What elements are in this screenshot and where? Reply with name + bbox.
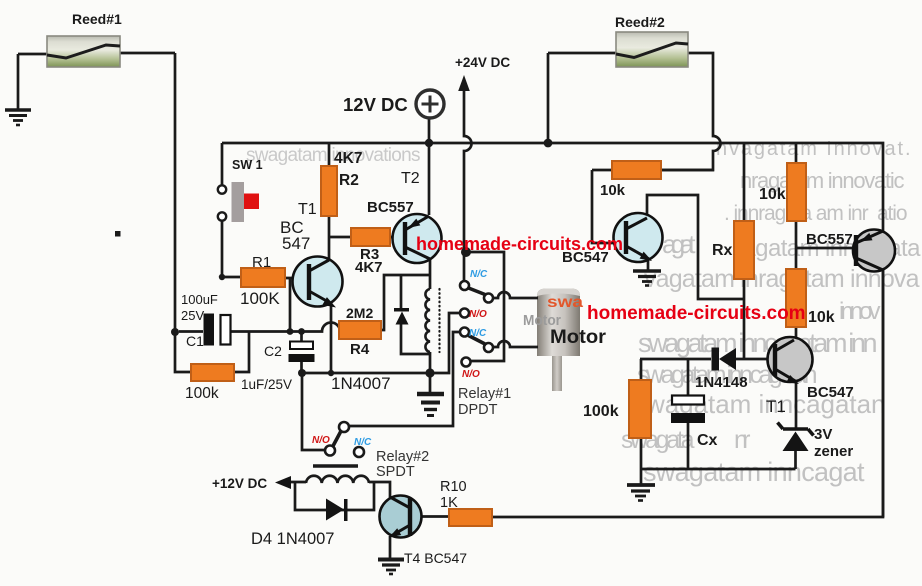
svg-text:zener: zener	[814, 443, 853, 460]
svg-text:DPDT: DPDT	[458, 402, 498, 418]
svg-text:3V: 3V	[814, 426, 832, 443]
svg-text:C1: C1	[186, 333, 204, 349]
svg-text:12V DC: 12V DC	[343, 94, 408, 115]
svg-text:N/C: N/C	[354, 437, 372, 448]
svg-text:C2: C2	[264, 343, 282, 359]
svg-text:1K: 1K	[440, 495, 458, 511]
svg-text:nr: nr	[734, 426, 751, 454]
svg-text:Reed#2: Reed#2	[615, 14, 665, 30]
svg-text:R4: R4	[350, 341, 370, 358]
svg-text:N/O: N/O	[462, 369, 480, 380]
svg-text:homemade-circuits.com: homemade-circuits.com	[587, 303, 806, 324]
svg-text:BC557: BC557	[806, 231, 853, 248]
svg-text:homemade-circuits.com: homemade-circuits.com	[416, 234, 623, 254]
svg-text:1N4148: 1N4148	[695, 374, 748, 391]
svg-text:D4 1N4007: D4 1N4007	[251, 530, 334, 548]
svg-text:Reed#1: Reed#1	[72, 11, 122, 27]
svg-text:swagatam inncagat: swagatam inncagat	[643, 457, 865, 487]
svg-text:T4 BC547: T4 BC547	[404, 550, 467, 566]
svg-text:T2: T2	[401, 170, 420, 187]
svg-text:100uF: 100uF	[181, 292, 218, 307]
svg-text:10k: 10k	[759, 186, 786, 203]
svg-text:1uF/25V: 1uF/25V	[241, 377, 292, 392]
svg-text:swa: swa	[547, 294, 583, 311]
svg-text:SW 1: SW 1	[232, 158, 263, 172]
svg-text:4K7: 4K7	[355, 259, 383, 276]
svg-text:10k: 10k	[808, 309, 835, 326]
svg-text:1N4007: 1N4007	[331, 374, 391, 393]
svg-text:25V: 25V	[181, 308, 204, 323]
svg-text:R2: R2	[339, 172, 359, 189]
svg-text:BC547: BC547	[807, 384, 854, 401]
svg-text:100k: 100k	[185, 385, 219, 402]
svg-text:4K7: 4K7	[334, 150, 362, 167]
svg-text:T1: T1	[766, 397, 786, 416]
svg-text:swagatam inncagatam inn: swagatam inncagatam inn	[638, 328, 878, 358]
svg-text:100k: 100k	[583, 403, 619, 420]
svg-text:R10: R10	[440, 479, 467, 495]
svg-text:N/C: N/C	[469, 328, 487, 339]
svg-text:547: 547	[282, 234, 310, 253]
svg-text:+12V DC: +12V DC	[212, 476, 267, 491]
svg-text:Rx: Rx	[712, 242, 733, 259]
svg-text:T1: T1	[298, 201, 317, 218]
svg-text:Cx: Cx	[697, 432, 718, 449]
svg-text:10k: 10k	[600, 182, 626, 199]
svg-text:BC557: BC557	[367, 199, 414, 216]
svg-text:innov: innov	[839, 298, 881, 325]
svg-text:N/O: N/O	[312, 435, 330, 446]
svg-text:R1: R1	[252, 254, 271, 271]
svg-text:SPDT: SPDT	[376, 464, 415, 480]
svg-text:Relay#1: Relay#1	[458, 386, 511, 402]
svg-text:+24V DC: +24V DC	[455, 55, 510, 70]
svg-text:Motor: Motor	[550, 327, 607, 348]
svg-text:2M2: 2M2	[346, 305, 373, 321]
svg-text:N/C: N/C	[470, 269, 488, 280]
svg-text:Relay#2: Relay#2	[376, 449, 429, 465]
svg-text:agat: agat	[662, 229, 696, 259]
svg-text:100K: 100K	[240, 289, 280, 308]
svg-text:N/O: N/O	[469, 309, 487, 320]
